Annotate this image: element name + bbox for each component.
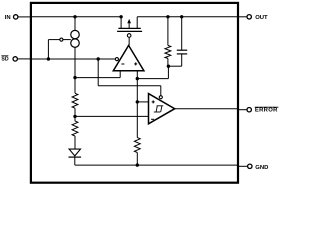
wire gate lead to error amp output bbox=[128, 37, 130, 45]
node dot FB node bbox=[136, 77, 139, 80]
wire U1 inverting input to reference bbox=[75, 71, 120, 78]
wire SD line bbox=[31, 58, 115, 60]
resistor R1 bandgap top bbox=[72, 47, 78, 108]
wire U1 non-inverting input / feedback divider bbox=[136, 71, 138, 138]
pin GND terminal bbox=[238, 164, 252, 168]
diode D1 bbox=[69, 149, 82, 165]
bubble on U1 shutdown input bbox=[115, 58, 118, 61]
node dot SD to current source branch bbox=[47, 57, 50, 60]
node dot SD to comparator disable branch bbox=[97, 57, 100, 60]
svg-text:OUT: OUT bbox=[255, 15, 268, 21]
resistor R3 divider bottom bbox=[134, 138, 140, 166]
bubble on U2 disable input bbox=[159, 96, 162, 99]
wire U2 output to ERROR pin bbox=[175, 108, 238, 110]
op-amp U1 error amplifier bbox=[113, 45, 144, 70]
comparator U2 with hysteresis bbox=[149, 94, 175, 124]
node dot R3 to GND bbox=[136, 163, 139, 166]
node dot OUT rail to resistor R4 bbox=[166, 15, 169, 18]
wire GND rail bbox=[75, 164, 238, 166]
node dot bandgap tap to comparator bbox=[73, 115, 76, 118]
node dot OUT rail to capacitor C1 bbox=[180, 15, 183, 18]
pin OUT terminal bbox=[238, 15, 251, 19]
pin SD terminal bbox=[13, 57, 31, 61]
wire shutdown branch to comparator bubble bbox=[98, 59, 161, 96]
current source I1 bbox=[71, 17, 80, 48]
transistor Q1 pass PMOS bbox=[117, 17, 142, 38]
svg-text:SD: SD bbox=[1, 56, 8, 62]
wire shutdown control to current source with bubble bbox=[48, 38, 70, 59]
node dot reference node bbox=[73, 76, 76, 79]
pin IN terminal bbox=[14, 15, 32, 19]
label SD (active low) bbox=[1, 56, 9, 63]
node dot IN rail to current source bbox=[73, 15, 76, 18]
svg-text:ERROR: ERROR bbox=[255, 107, 278, 113]
label ERROR (active low) bbox=[255, 107, 279, 113]
wire OUT rail bbox=[137, 16, 238, 18]
capacitor C1 from OUT bbox=[168, 17, 187, 66]
pin ERROR terminal bbox=[238, 108, 251, 112]
resistor R4 from OUT bbox=[165, 17, 171, 66]
node dot IN rail to PMOS source bbox=[119, 15, 122, 18]
resistor R2 bandgap bottom bbox=[72, 108, 78, 149]
wire comparator minus input from bandgap tap bbox=[75, 115, 149, 117]
svg-text:GND: GND bbox=[255, 165, 268, 171]
node dot divider to comparator plus bbox=[136, 100, 139, 103]
wire FB link to RC bottom bbox=[137, 66, 168, 78]
wire comparator plus input bbox=[137, 101, 148, 103]
wire IN rail left bbox=[31, 16, 121, 18]
svg-text:IN: IN bbox=[5, 15, 11, 21]
IC outline box bbox=[31, 3, 238, 183]
node dot RC bottom node bbox=[167, 65, 170, 68]
